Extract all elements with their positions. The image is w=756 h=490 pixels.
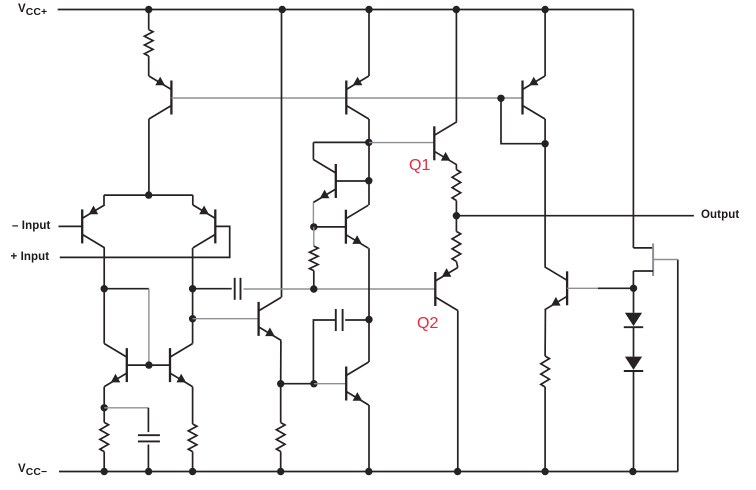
transistor Q2 (PNP output lower) [434,272,436,306]
resistor R8 [541,356,550,387]
wire resistor R4 to VCC- rail [280,452,282,472]
wire Q10 collector tie [313,141,368,143]
wire node to capacitor C3 [104,407,148,409]
resistor R2 (mirror left degeneration) [100,422,109,451]
capacitor C3 [138,434,160,436]
wire Q12 base line to bar [314,383,346,385]
wire Q1 emitter to resistor R6 [455,165,457,170]
wire diode D1 to diode D2 [633,327,635,356]
wire FET source down to bias node [632,271,634,288]
wire Q10 collector riser [312,142,314,159]
resistor R5 [310,246,319,271]
wire mirror right collector up [192,319,194,344]
label Q1 (red) [409,157,430,175]
node junction VCC+ rail / Q1 collector [453,6,460,13]
wire - Input lead [59,225,83,227]
label VCC+ [18,3,47,18]
wire Q12 emitter to VCC- rail [368,405,370,472]
wire mirror base tie horizontal [104,288,149,290]
transistor Q9 (PNP, top middle) [345,81,347,115]
wire from VCC+ rail to resistor R1 [148,10,150,30]
node junction VCC- rail / Q12 emitter [365,468,372,475]
wire Q11 base lead [314,226,346,228]
wire FET gate lead [653,259,678,261]
wire Q8 emitter node to resistor R4 [280,384,282,423]
node junction base line / feedback [497,95,504,102]
node junction mirror bases [145,361,152,368]
capacitor C2 [335,309,337,331]
transistor Q3 (PNP current source, top left) [170,81,172,115]
resistor R6 [452,170,461,201]
wire mirror right base to node [149,364,170,366]
node bias node (FET source / Q14 base / diodes) [630,285,637,292]
wire left collector down to mirror [103,289,105,344]
transistor Q5 (PNP, + input) [214,209,216,243]
node junction Q8 emitter / base line [277,380,284,387]
wire mirror right emitter down to resistor R3 [192,387,194,424]
node junction VCC- rail / R4 [277,468,284,475]
node junction base line / C2 riser [310,380,317,387]
wire resistor R3 to VCC- rail [192,452,194,472]
wire Q8 emitter down [280,340,282,383]
wire capacitor C3 bottom lead [147,445,149,472]
node junction R5 / Q2 base line [310,285,317,292]
wire resistor R6 to output node [455,201,457,216]
wire Q2 collector to VCC- rail [457,311,459,472]
wire Q2 base line (C1 to Q2) [244,288,436,290]
wire right collector column [192,289,194,319]
node junction VCC- rail / diode D2 [629,468,636,475]
wire right input emitter up to tie line [192,195,194,205]
wire Output lead [456,215,694,217]
label Output [701,209,739,221]
transistor Q7 (NPN mirror right) [169,348,171,382]
wire VCC+ rail to Q13 emitter [544,10,546,77]
node junction Q10 base node [365,177,372,184]
wire mirror-left node to resistor R2 [103,408,105,423]
node junction Q13 collector [541,140,548,147]
wire mirror left emitter down [103,387,105,408]
wire left input collector down [103,248,105,289]
wire Q8 collector up to VCC+ rail [281,10,283,298]
transistor Q8 (NPN second stage) [257,302,259,336]
node junction VCC+ rail / Q9 [365,6,372,13]
diode D2 [625,357,642,370]
wire input-pair emitter tie line [104,194,193,196]
label Q2 (red) [417,315,438,333]
transistor Q4 (PNP, - input) [81,209,83,243]
node junction emitter/degeneration node [101,404,108,411]
node junction VCC+ rail / Q8 collector [279,6,286,13]
wire Q1 base lead [369,142,434,144]
wire resistor R7 to Q2 emitter [456,261,457,267]
node junction VCC- rail / C3 [145,468,152,475]
wire Q10 emitter down [312,203,314,227]
wire VCC- rail [59,471,678,473]
node junction Q9 collector / Q1 base [365,139,372,146]
wire FET source lead [633,270,653,272]
wire Q1 collector to VCC+ rail [455,10,457,122]
transistor Q13 (PNP, top right diode-connected) [521,81,523,115]
wire Q10 base lead [336,180,369,182]
wire C2 left lead and riser [313,320,335,384]
wire capacitor C3 top lead [147,408,149,432]
wire FET drain lead [633,247,653,249]
node junction emitter tie / Q3 collector [145,191,152,198]
wire resistor R8 to VCC- rail [544,387,546,472]
wire diode D2 to VCC- rail [633,371,635,472]
node junction VCC- rail / R8 [541,468,548,475]
wire Q14 base lead black part [598,287,634,289]
wire left input emitter up to tie line [103,195,105,205]
resistor R4 [276,423,285,452]
wire C2 right lead [345,319,369,321]
wire mirror base tie vertical [148,289,150,365]
wire resistor R1 to Q3 emitter [148,56,150,76]
node junction C2 right lead [365,316,372,323]
wire C1 left lead [193,288,232,290]
resistor R3 (mirror right degeneration) [188,424,197,452]
wire Q11 emitter column down [368,248,370,362]
capacitor C1 [234,278,236,300]
wire Q8 base lead [193,318,259,320]
node junction collector / C1 lead [189,285,196,292]
node junction VCC- rail / R3 [189,468,196,475]
wire output node to resistor R7 [455,216,457,232]
node junction VCC- rail / Q2 collector [454,468,461,475]
wire Q13 collector down [544,119,546,144]
node junction left collector column [101,285,108,292]
wire VCC+ rail to Q9 emitter [368,10,370,77]
wire mirror left base to node [127,364,149,366]
node junction collector / Q8 base [189,315,196,322]
wire Q13 base-collector tie [501,98,545,143]
wire common base line of top PNP row [171,97,522,99]
wire VCC+ rail [58,9,634,11]
diode D1 [625,313,642,326]
label + Input [11,251,50,263]
wire Q12 base line [281,383,314,385]
label VCC- [18,463,47,478]
wire resistor R5 bottom lead [313,271,315,289]
node junction Q10 emitter / Q11 base [310,223,317,230]
node junction VCC+ rail / R1 [145,6,152,13]
transistor Q14 (NPN, right bias) [566,271,568,305]
wire right input collector down [192,248,194,289]
wire bias node to diode D1 [633,288,635,313]
node output node [453,212,460,219]
transistor J1 channel bar (FET) [652,244,654,277]
resistor R7 [452,231,461,261]
wire resistor R2 to VCC- rail [103,452,105,472]
transistor Q12 (NPN, bottom middle) [345,367,347,401]
wire + Input lead and riser to base [60,226,230,257]
wire Q14 base lead gray part [567,287,598,289]
wire Q3 collector down to input-pair emitters [148,119,150,195]
node junction VCC- rail / R2 [101,468,108,475]
label - Input [12,220,50,232]
wire right bus from VCC+ rail down to FET drain [632,10,634,248]
wire Q9 collector down [368,119,370,205]
transistor Q10 (NPN, Vbe multiplier upper) [335,164,337,198]
resistor R1 [144,30,153,56]
wire Q13 collector column down to Q14 [544,144,546,267]
transistor Q6 (NPN mirror left) [126,348,128,382]
node junction VCC+ rail / Q13 [541,6,548,13]
transistor Q1 (NPN output upper) [433,126,435,160]
wire Q11-base resistor top lead [313,227,315,246]
transistor Q11 (NPN, Vbe multiplier lower) [345,210,347,244]
wire Q14 emitter down to resistor R8 [544,310,546,356]
wire right edge vertical (FET gate to VCC- rail) [677,260,679,472]
